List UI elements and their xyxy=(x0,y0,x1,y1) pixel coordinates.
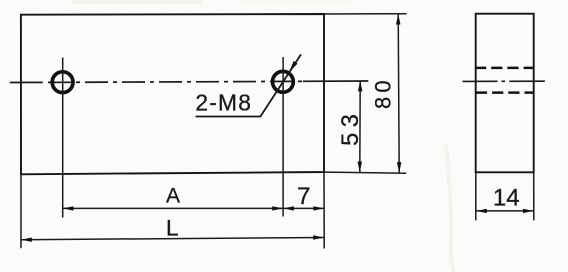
extension line: side view left edge extended down for dim 14 xyxy=(475,172,477,220)
dimension 80 (vertical) xyxy=(396,14,401,173)
text 7 xyxy=(297,183,310,210)
faint scan streak artifact right-center xyxy=(446,143,454,272)
extension line: left edge extended down for dim L xyxy=(20,174,22,248)
dimension 14 (horizontal) xyxy=(476,209,534,213)
svg-text:53: 53 xyxy=(338,108,364,145)
text A xyxy=(166,185,180,208)
label 2-M8 xyxy=(195,90,252,116)
text L xyxy=(166,215,179,240)
side view hidden thread line upper (dashed) xyxy=(475,67,534,70)
side view horizontal centerline (dash-dot) xyxy=(463,80,545,82)
arrow A right xyxy=(272,206,283,210)
svg-text:L: L xyxy=(166,215,179,240)
arrow 7 right xyxy=(313,206,324,210)
side view hidden thread line lower (dashed) xyxy=(476,91,535,94)
dimension 53 (vertical) xyxy=(358,81,363,173)
horizontal centerline through holes (dash-dot) xyxy=(10,81,369,83)
hole 1 vertical centerline / extension line for dim A xyxy=(62,58,64,218)
extension line: side view right edge extended down for dim 14 xyxy=(533,172,535,220)
text 80 (rotated) xyxy=(371,76,396,109)
extension line: right edge extended down for dims 7 and L xyxy=(323,172,325,249)
front view plate outline xyxy=(21,14,324,174)
text 14 xyxy=(493,184,520,211)
svg-text:7: 7 xyxy=(297,183,310,210)
extension line: top edge extended right for dim 80 xyxy=(324,13,407,15)
svg-text:80: 80 xyxy=(371,76,396,109)
hole 2 (tapped hole M8) xyxy=(273,71,294,92)
hole 1 (tapped hole M8) xyxy=(52,72,73,93)
svg-text:14: 14 xyxy=(493,184,520,211)
dimension line for A and 7 (shared) xyxy=(63,207,325,209)
hole 2 vertical centerline / extension line for dims A and 7 xyxy=(282,57,284,217)
svg-text:2-M8: 2-M8 xyxy=(195,90,252,116)
arrow A left xyxy=(63,206,74,210)
svg-text:A: A xyxy=(166,185,180,208)
dimension L (horizontal, slight scan tilt) xyxy=(21,235,324,242)
extension line: bottom edge extended right for dims 53 and 80 xyxy=(324,172,406,173)
side view plate outline xyxy=(476,14,534,173)
leader line for 2-M8 label xyxy=(196,54,301,116)
faint scan band top edge xyxy=(72,0,350,4)
arrow 7 left xyxy=(283,206,294,210)
text 53 (rotated) xyxy=(338,108,364,145)
